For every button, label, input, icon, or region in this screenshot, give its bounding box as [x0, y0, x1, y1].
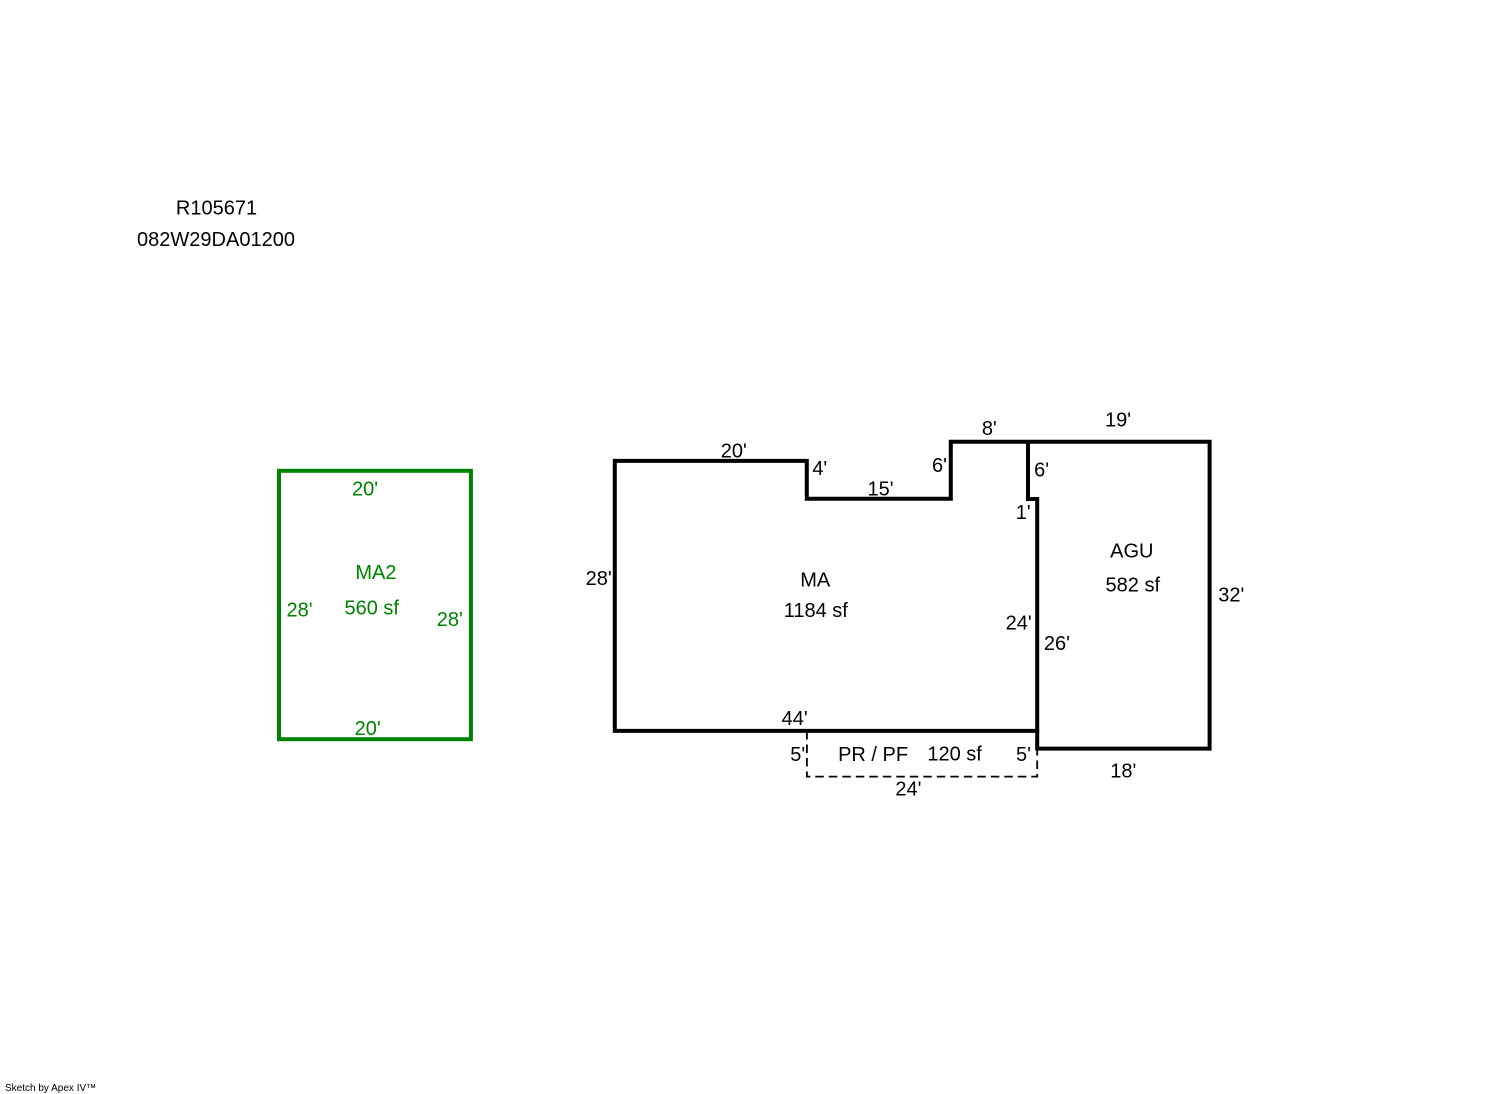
svg-text:4': 4' [812, 458, 827, 480]
svg-text:20': 20' [355, 718, 381, 740]
svg-text:28': 28' [286, 600, 312, 622]
svg-text:Sketch by Apex IV™: Sketch by Apex IV™ [5, 1083, 96, 1094]
svg-text:18': 18' [1110, 761, 1136, 783]
svg-text:20': 20' [352, 478, 378, 500]
svg-text:24': 24' [895, 779, 921, 801]
svg-text:R105671: R105671 [176, 198, 257, 220]
svg-text:560 sf: 560 sf [344, 598, 399, 620]
svg-text:20': 20' [721, 441, 747, 463]
svg-text:5': 5' [1016, 744, 1031, 766]
svg-text:44': 44' [782, 708, 808, 730]
svg-text:082W29DA01200: 082W29DA01200 [137, 229, 295, 251]
svg-text:15': 15' [867, 478, 893, 500]
svg-text:26': 26' [1044, 633, 1070, 655]
svg-text:PR / PF: PR / PF [838, 744, 908, 766]
svg-text:6': 6' [932, 455, 947, 477]
svg-text:1': 1' [1016, 502, 1031, 524]
svg-text:6': 6' [1034, 459, 1049, 481]
svg-text:8': 8' [982, 418, 997, 440]
svg-text:MA2: MA2 [355, 562, 396, 584]
svg-text:32': 32' [1218, 585, 1244, 607]
svg-text:MA: MA [800, 569, 831, 591]
svg-text:582 sf: 582 sf [1106, 575, 1161, 597]
svg-text:5': 5' [790, 744, 805, 766]
svg-text:19': 19' [1105, 410, 1131, 432]
svg-text:AGU: AGU [1110, 540, 1153, 562]
svg-text:28': 28' [586, 568, 612, 590]
svg-text:24': 24' [1006, 613, 1032, 635]
svg-text:120 sf: 120 sf [927, 744, 982, 766]
svg-text:28': 28' [437, 609, 463, 631]
svg-text:1184 sf: 1184 sf [784, 600, 849, 622]
